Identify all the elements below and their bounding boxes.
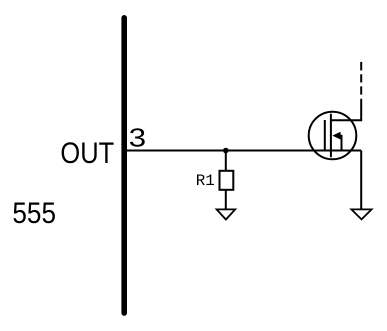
svg-text:R1: R1 xyxy=(196,172,215,190)
svg-text:3: 3 xyxy=(129,124,146,153)
svg-text:OUT: OUT xyxy=(60,136,114,169)
svg-text:555: 555 xyxy=(12,197,56,230)
